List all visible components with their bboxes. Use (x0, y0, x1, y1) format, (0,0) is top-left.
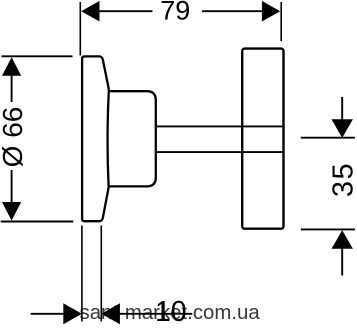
dim10 arrow right (63, 303, 82, 324)
dim66 leader upper (11, 75, 13, 102)
dim79 right extension line (280, 2, 282, 41)
dim79 line left segment (99, 10, 153, 12)
dim66 arrow up (2, 57, 21, 76)
dim35 bottom line (301, 228, 355, 230)
label 35 (328, 162, 357, 197)
dim79 line right segment (202, 10, 262, 12)
svg-text:79: 79 (160, 0, 190, 26)
sleeve (middle cylinder) (109, 91, 156, 186)
dim35 lower leader (341, 248, 343, 276)
dim35 top line (301, 137, 355, 139)
dim35 arrow down (332, 119, 353, 138)
svg-text:10: 10 (155, 296, 187, 328)
dim10 arrow left (101, 303, 120, 324)
svg-text:Ø 66: Ø 66 (0, 107, 28, 168)
dim79 arrow right (262, 1, 280, 22)
dim35 upper leader (341, 97, 343, 120)
dim79 left extension line (79, 2, 81, 56)
dim10 line left segment (31, 313, 64, 315)
dim79 arrow left (81, 1, 99, 22)
dim66 bottom extension line (1, 221, 74, 223)
label 79 (160, 0, 190, 26)
watermark sant-market.com.ua (80, 302, 261, 324)
escutcheon flange outline (82, 56, 109, 221)
dim66 top extension line (2, 55, 73, 57)
stem hub top line (156, 125, 284, 127)
stem hub bottom line (156, 151, 284, 153)
dim66 arrow down (2, 202, 21, 221)
dim66 leader lower (11, 170, 13, 203)
dim10 right extension line (100, 226, 102, 322)
dim10 line right segment (120, 313, 193, 315)
cross handle bar (242, 49, 283, 229)
dim35 arrow up (332, 230, 353, 249)
label diameter 66 (0, 107, 28, 168)
svg-text:35: 35 (328, 162, 357, 197)
dim10 left extension line (81, 226, 83, 322)
label 10 (155, 296, 187, 328)
